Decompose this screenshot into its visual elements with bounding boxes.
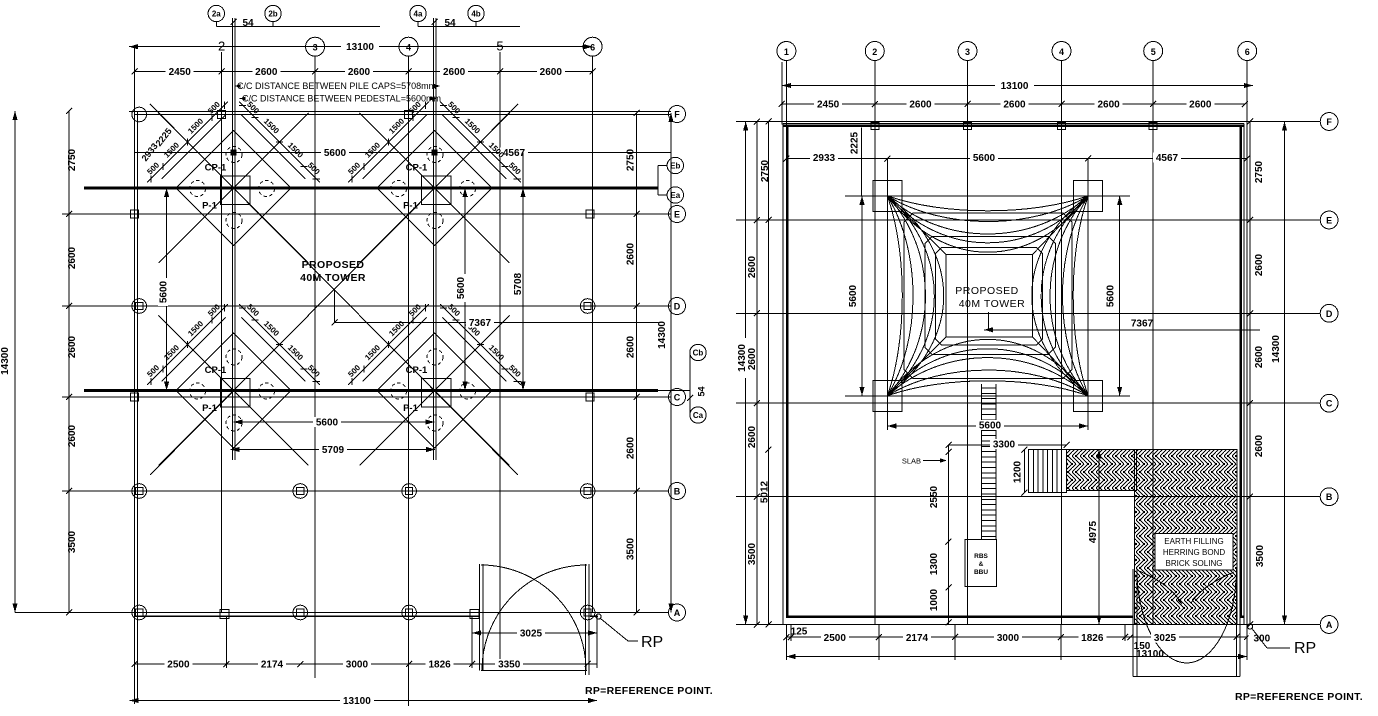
svg-text:4567: 4567 bbox=[1156, 153, 1179, 164]
svg-text:3000: 3000 bbox=[346, 660, 369, 671]
grid line 3 bbox=[314, 56, 316, 678]
overall dim 13100 bottom right drawing bbox=[786, 656, 1247, 658]
tower ring R2 bbox=[935, 248, 1042, 346]
grid line E bbox=[62, 213, 671, 215]
tower leg pad bbox=[1074, 380, 1103, 411]
svg-text:Eb: Eb bbox=[670, 162, 680, 171]
svg-text:2600: 2600 bbox=[540, 67, 563, 78]
dim chain 2550 1300 1000 bbox=[946, 449, 952, 455]
svg-text:2a: 2a bbox=[212, 10, 221, 19]
dim chain top right drawing bbox=[782, 103, 1245, 105]
small square marker bbox=[405, 111, 413, 119]
svg-text:D: D bbox=[1326, 309, 1333, 319]
tower axis 4b bbox=[435, 18, 437, 460]
svg-text:13100: 13100 bbox=[1136, 649, 1164, 660]
svg-text:3000: 3000 bbox=[997, 633, 1020, 644]
svg-text:2600: 2600 bbox=[67, 424, 78, 447]
door swing arc U right bbox=[1187, 569, 1237, 663]
svg-text:2600: 2600 bbox=[1254, 345, 1265, 368]
grid bubble D right bbox=[1320, 304, 1338, 322]
svg-text:2750: 2750 bbox=[760, 159, 771, 182]
column marker F left bbox=[132, 107, 147, 122]
dim 5600 vertical 1 bbox=[166, 188, 168, 391]
door swing arc 1 bbox=[481, 565, 586, 670]
door swing arc 2 bbox=[482, 565, 587, 670]
svg-text:14300: 14300 bbox=[0, 347, 11, 375]
svg-text:5600: 5600 bbox=[848, 284, 859, 307]
wall left outer bbox=[782, 123, 784, 624]
overall vertical dim 14300 far right bbox=[1284, 122, 1286, 625]
wall top thick bbox=[783, 125, 1244, 128]
cable ladder bbox=[981, 384, 983, 540]
svg-text:2450: 2450 bbox=[169, 67, 192, 78]
svg-text:1200: 1200 bbox=[1013, 460, 1024, 483]
small square marker bbox=[218, 111, 226, 119]
column marker B/409.1 bbox=[402, 484, 417, 499]
stairs bbox=[1029, 450, 1067, 493]
svg-text:5600: 5600 bbox=[316, 418, 339, 429]
svg-text:2600: 2600 bbox=[747, 347, 758, 370]
svg-text:E: E bbox=[674, 210, 680, 220]
svg-text:2b: 2b bbox=[268, 10, 277, 19]
svg-text:C: C bbox=[674, 393, 681, 403]
tower diagonal brace line 1 bbox=[150, 104, 518, 475]
svg-text:F: F bbox=[674, 110, 680, 120]
tower corner diagonal lines bbox=[887, 196, 946, 255]
svg-text:C: C bbox=[1326, 399, 1333, 409]
grid bubble 6 bbox=[583, 37, 602, 56]
svg-text:2600: 2600 bbox=[626, 242, 637, 265]
vertical dim chain left of right drawing bbox=[756, 122, 758, 625]
door jamb left bbox=[479, 564, 481, 670]
grid line B right bbox=[745, 496, 1321, 498]
dim 5600 vertical right of tower bbox=[1119, 196, 1121, 396]
grid bubble 6 right drawing bbox=[1238, 42, 1257, 61]
svg-text:3500: 3500 bbox=[1255, 544, 1266, 567]
svg-text:2933: 2933 bbox=[813, 153, 836, 164]
wall tick bbox=[1149, 123, 1157, 130]
grid bubble 4 bbox=[399, 37, 418, 56]
svg-text:3500: 3500 bbox=[67, 530, 78, 553]
dim 2225 rotated bbox=[861, 128, 863, 196]
door bottom line bbox=[1133, 676, 1240, 678]
pile cap CP-1 #1 bbox=[159, 113, 309, 263]
dim 7367 left drawing bbox=[334, 290, 336, 322]
svg-text:1300: 1300 bbox=[929, 552, 940, 575]
grid line 2 right bbox=[874, 125, 876, 625]
grid line F right bbox=[745, 121, 1320, 123]
dim 3300 bbox=[949, 444, 1067, 446]
svg-text:5: 5 bbox=[496, 39, 503, 54]
svg-text:2750: 2750 bbox=[67, 148, 78, 171]
svg-text:CP-1: CP-1 bbox=[205, 365, 227, 376]
wall right thick bbox=[1239, 126, 1241, 618]
svg-text:3300: 3300 bbox=[993, 440, 1016, 451]
grid bubble C right bbox=[1320, 394, 1338, 412]
svg-text:RP=REFERENCE POINT.: RP=REFERENCE POINT. bbox=[585, 685, 713, 697]
svg-text:3350: 3350 bbox=[498, 660, 521, 671]
svg-text:A: A bbox=[674, 608, 681, 618]
grid bubble A right bbox=[1320, 616, 1338, 634]
grid line A bbox=[15, 612, 669, 614]
svg-text:4: 4 bbox=[406, 42, 411, 52]
grid bubble E bbox=[669, 206, 686, 223]
svg-text:CP-1: CP-1 bbox=[406, 163, 428, 174]
tower ring R1 bbox=[925, 237, 1055, 355]
svg-text:2600: 2600 bbox=[443, 67, 466, 78]
svg-text:5600: 5600 bbox=[324, 148, 347, 159]
overall dim 13100 top right drawing bbox=[782, 85, 1253, 87]
svg-text:C/C DISTANCE BETWEEN PEDESTAL=: C/C DISTANCE BETWEEN PEDESTAL=5600mm bbox=[242, 94, 441, 104]
svg-text:54: 54 bbox=[444, 18, 456, 29]
svg-text:7367: 7367 bbox=[1131, 319, 1154, 330]
tower axis row Ca-Cb heavy line bbox=[84, 389, 658, 392]
svg-text:40M TOWER: 40M TOWER bbox=[300, 272, 366, 284]
wall right outer bbox=[1243, 123, 1245, 624]
grid bubble B right bbox=[1320, 488, 1338, 506]
pad axis vertical right bbox=[1087, 159, 1089, 431]
pad axis horizontal top bbox=[845, 195, 1130, 197]
tower axis 4a bbox=[432, 18, 434, 460]
grid bubble F bbox=[669, 106, 686, 123]
svg-text:BRICK SOLING: BRICK SOLING bbox=[1166, 559, 1223, 568]
svg-text:4975: 4975 bbox=[1088, 520, 1099, 543]
column marker A/409.1 bbox=[402, 605, 417, 620]
grid bubble B bbox=[669, 483, 686, 500]
vertical dim chain right side of right drawing bbox=[1249, 122, 1251, 625]
svg-text:HERRING BOND: HERRING BOND bbox=[1163, 548, 1225, 557]
svg-text:5: 5 bbox=[1151, 47, 1156, 57]
grid line F bbox=[129, 111, 671, 113]
reference point RP left bbox=[596, 614, 601, 619]
svg-text:Ea: Ea bbox=[670, 191, 680, 200]
svg-text:5600: 5600 bbox=[973, 153, 996, 164]
svg-text:E: E bbox=[1326, 216, 1332, 226]
svg-text:B: B bbox=[1326, 492, 1333, 502]
svg-text:CP-1: CP-1 bbox=[406, 365, 428, 376]
svg-text:CP-1: CP-1 bbox=[205, 163, 227, 174]
svg-text:54: 54 bbox=[697, 386, 707, 396]
grid line 4 bbox=[408, 56, 410, 706]
text box earth filling bbox=[1155, 534, 1233, 571]
column marker B/139.2 bbox=[132, 484, 147, 499]
grid bubble Ea bbox=[667, 187, 683, 203]
svg-text:2: 2 bbox=[218, 39, 225, 54]
svg-text:300: 300 bbox=[1253, 634, 1270, 645]
svg-text:B: B bbox=[674, 487, 681, 497]
tower leg pad bbox=[873, 180, 902, 211]
grid bubble 3 right drawing bbox=[958, 42, 977, 61]
svg-text:1: 1 bbox=[784, 47, 789, 57]
bracket to Cb Ca bubbles bbox=[658, 390, 690, 392]
svg-text:4: 4 bbox=[1059, 47, 1064, 57]
svg-text:2600: 2600 bbox=[1254, 434, 1265, 457]
small square marker bbox=[586, 393, 594, 401]
dim 5708 vertical bbox=[522, 153, 524, 391]
svg-text:1000: 1000 bbox=[929, 588, 940, 611]
grid bubble F right bbox=[1320, 113, 1338, 131]
svg-text:5600: 5600 bbox=[1106, 284, 1117, 307]
grid line 4 right bbox=[1061, 125, 1063, 625]
svg-text:2600: 2600 bbox=[67, 246, 78, 269]
overall vertical dim 14300 right drawing bbox=[745, 122, 747, 625]
svg-text:13100: 13100 bbox=[1001, 81, 1029, 92]
grid bubble 2 right drawing bbox=[865, 42, 884, 61]
pile cap CP-1 #4 bbox=[360, 316, 510, 466]
svg-text:2750: 2750 bbox=[1254, 160, 1265, 183]
svg-text:13100: 13100 bbox=[346, 42, 374, 53]
svg-text:2600: 2600 bbox=[255, 67, 278, 78]
svg-text:6: 6 bbox=[1245, 47, 1250, 57]
column marker D left bbox=[132, 299, 147, 314]
svg-text:RBS: RBS bbox=[974, 553, 988, 560]
tower leg pad bbox=[1074, 180, 1103, 211]
grid line C right bbox=[745, 402, 1321, 404]
svg-text:3: 3 bbox=[313, 42, 318, 52]
tower axis 2b bbox=[234, 18, 236, 460]
grid line 6 bbox=[592, 56, 594, 613]
left drawing: pile cap layout plan bbox=[0, 5, 713, 707]
svg-text:P-1: P-1 bbox=[403, 403, 419, 414]
column marker A/587.6 bbox=[580, 605, 595, 620]
wall top outer bbox=[783, 122, 1244, 124]
svg-text:2500: 2500 bbox=[167, 660, 190, 671]
small square marker bbox=[131, 393, 139, 401]
svg-text:2600: 2600 bbox=[626, 436, 637, 459]
grid line B bbox=[62, 490, 669, 492]
door swing arc U left bbox=[1137, 569, 1187, 663]
door jamb right right-drawing bbox=[1236, 569, 1238, 677]
grid bubble A bbox=[669, 604, 686, 621]
svg-text:2600: 2600 bbox=[747, 255, 758, 278]
grid bubble 2a bbox=[208, 5, 224, 21]
grid line 5 bbox=[499, 52, 501, 669]
grid bubble 4b bbox=[468, 5, 484, 21]
grid line 5 right bbox=[1152, 125, 1154, 625]
svg-text:5012: 5012 bbox=[760, 480, 771, 503]
dim 5600 between tower axes / 4567 bbox=[135, 152, 672, 154]
grid bubble Ca bbox=[690, 407, 706, 423]
dim 4975 bbox=[1098, 450, 1100, 625]
small square marker bbox=[586, 210, 594, 218]
svg-text:3025: 3025 bbox=[520, 629, 543, 640]
svg-text:SLAB: SLAB bbox=[902, 457, 921, 466]
svg-text:5600: 5600 bbox=[159, 280, 170, 303]
svg-text:Cb: Cb bbox=[693, 349, 704, 358]
svg-text:&: & bbox=[979, 561, 984, 568]
svg-text:P-1: P-1 bbox=[202, 403, 218, 414]
svg-text:Ca: Ca bbox=[693, 411, 704, 420]
hatch earth filling main bbox=[1135, 450, 1238, 625]
dim chain bottom left drawing bbox=[135, 663, 598, 665]
wall tick bbox=[871, 123, 879, 130]
small square marker bbox=[131, 210, 139, 218]
svg-text:3025: 3025 bbox=[1154, 633, 1177, 644]
tower concave face curves bbox=[887, 196, 1088, 211]
grid line E right bbox=[745, 219, 1321, 221]
column marker B/587.6 bbox=[580, 484, 595, 499]
pile cap CP-1 #3 bbox=[159, 316, 309, 466]
svg-text:54: 54 bbox=[242, 18, 254, 29]
tower ring R0 bbox=[904, 213, 1072, 379]
tower leg pad bbox=[873, 380, 902, 411]
svg-text:3500: 3500 bbox=[626, 537, 637, 560]
svg-text:2600: 2600 bbox=[1189, 100, 1212, 111]
boundary wall line left bbox=[134, 111, 136, 700]
svg-text:2: 2 bbox=[872, 47, 877, 57]
grid bubble 5 right drawing bbox=[1144, 42, 1163, 61]
wall left thick bbox=[786, 126, 788, 618]
grid line D right bbox=[745, 312, 1321, 314]
grid bubble 4a bbox=[410, 5, 426, 21]
svg-text:2174: 2174 bbox=[906, 633, 929, 644]
svg-text:5600: 5600 bbox=[979, 421, 1002, 432]
dim 1200 stairs bbox=[1024, 450, 1026, 493]
svg-text:6: 6 bbox=[590, 42, 595, 52]
svg-text:3: 3 bbox=[965, 47, 970, 57]
svg-text:14300: 14300 bbox=[1271, 335, 1282, 363]
svg-text:P-1: P-1 bbox=[403, 200, 419, 211]
dim 5600 pedestal c/c bottom bbox=[234, 421, 435, 423]
door jamb right bbox=[585, 564, 587, 675]
dim 3025 left drawing bbox=[472, 632, 597, 634]
svg-text:BBU: BBU bbox=[974, 569, 988, 576]
column marker A/300.3 bbox=[293, 605, 308, 620]
RBS BBU equipment box bbox=[965, 540, 997, 587]
svg-text:D: D bbox=[674, 302, 681, 312]
svg-text:2600: 2600 bbox=[1003, 100, 1026, 111]
bracket to Eb Ea bubbles bbox=[657, 166, 659, 189]
svg-text:2600: 2600 bbox=[909, 100, 932, 111]
svg-text:4567: 4567 bbox=[503, 148, 526, 159]
grid line D bbox=[62, 305, 671, 307]
post marker bbox=[220, 610, 229, 619]
svg-text:125: 125 bbox=[791, 627, 808, 638]
column marker B/300.3 bbox=[293, 484, 308, 499]
grid line 2 bbox=[221, 52, 223, 613]
svg-text:3500: 3500 bbox=[747, 542, 758, 565]
svg-text:C/C DISTANCE BETWEEN PILE CAPS: C/C DISTANCE BETWEEN PILE CAPS=5708mm bbox=[237, 81, 436, 91]
column marker A/139.2 bbox=[132, 605, 147, 620]
svg-text:2600: 2600 bbox=[1254, 253, 1265, 276]
dim 5600 vertical 3 bbox=[464, 188, 466, 391]
dim 5600 vertical left of tower bbox=[861, 196, 863, 396]
wall tick bbox=[964, 123, 972, 130]
svg-text:40M TOWER: 40M TOWER bbox=[959, 298, 1026, 310]
svg-text:2550: 2550 bbox=[929, 485, 940, 508]
svg-text:1826: 1826 bbox=[428, 660, 451, 671]
grid bubble 4 right drawing bbox=[1052, 42, 1071, 61]
svg-text:5709: 5709 bbox=[322, 445, 345, 456]
svg-text:P-1: P-1 bbox=[202, 200, 218, 211]
tower axis 2a bbox=[231, 18, 233, 460]
door bottom line bbox=[481, 669, 587, 671]
svg-text:2600: 2600 bbox=[67, 335, 78, 358]
door leader arcs bbox=[1139, 571, 1181, 603]
vertical dim chain left bbox=[68, 111, 70, 613]
svg-text:2600: 2600 bbox=[626, 335, 637, 358]
wall bottom thick bbox=[786, 615, 1134, 618]
door jamb left right-drawing bbox=[1132, 569, 1134, 677]
svg-text:2450: 2450 bbox=[817, 100, 840, 111]
svg-text:2600: 2600 bbox=[348, 67, 371, 78]
wall line at A bbox=[135, 615, 481, 617]
svg-text:5600: 5600 bbox=[456, 276, 467, 299]
svg-text:F: F bbox=[1326, 117, 1332, 127]
svg-text:2225: 2225 bbox=[850, 131, 861, 154]
svg-text:2174: 2174 bbox=[261, 660, 284, 671]
svg-text:2600: 2600 bbox=[747, 425, 758, 448]
svg-text:2500: 2500 bbox=[824, 633, 847, 644]
overall vertical dim 14300 right bbox=[670, 113, 672, 613]
overall dim 13100 top left drawing bbox=[129, 46, 584, 48]
grid bubble D bbox=[669, 298, 686, 315]
grid bubble C bbox=[669, 389, 686, 406]
svg-text:4a: 4a bbox=[414, 10, 423, 19]
column marker D right bbox=[580, 299, 595, 314]
tower inner square bbox=[946, 255, 1033, 338]
dim chain bottom right drawing bbox=[786, 636, 1247, 638]
hatch earth filling strip bbox=[1067, 450, 1137, 491]
grid bubble 1 right drawing bbox=[777, 42, 796, 61]
grid bubble Eb bbox=[667, 157, 683, 173]
right drawing: tower base plan bbox=[736, 42, 1363, 704]
overall dim 13100 bottom left drawing bbox=[130, 700, 597, 702]
pile cap CP-1 #2 bbox=[360, 113, 510, 263]
slab edge line bbox=[948, 445, 950, 625]
pad axis vertical left bbox=[886, 159, 888, 431]
svg-text:RP=REFERENCE POINT.: RP=REFERENCE POINT. bbox=[1235, 691, 1363, 703]
grid bubble 2b bbox=[265, 5, 281, 21]
grid bubble E right bbox=[1320, 211, 1338, 229]
svg-text:RP: RP bbox=[641, 634, 663, 651]
overall vertical dim 14300 left bbox=[14, 111, 16, 613]
dim 2933 5600 4567 bbox=[786, 158, 1247, 160]
dim 5012 / 2750 chain bbox=[768, 122, 770, 625]
vertical dim chain right of left drawing bbox=[636, 113, 638, 613]
svg-text:EARTH FILLING: EARTH FILLING bbox=[1164, 537, 1223, 546]
grid bubble 3 bbox=[306, 37, 325, 56]
svg-text:4b: 4b bbox=[471, 10, 480, 19]
grid line C bbox=[62, 396, 671, 398]
post marker bbox=[470, 610, 479, 619]
svg-text:7367: 7367 bbox=[469, 318, 492, 329]
grid line 6 right bbox=[1246, 61, 1248, 625]
grid bubble Cb bbox=[690, 344, 706, 360]
svg-text:RP: RP bbox=[1294, 640, 1316, 657]
svg-text:PROPOSED: PROPOSED bbox=[955, 285, 1019, 297]
grid line 3 right bbox=[967, 125, 969, 625]
svg-text:2600: 2600 bbox=[1097, 100, 1120, 111]
svg-text:PROPOSED: PROPOSED bbox=[302, 259, 365, 271]
reference point RP right bbox=[1247, 624, 1252, 629]
tower axis row Ea-Eb heavy line bbox=[84, 187, 658, 190]
svg-text:14300: 14300 bbox=[657, 321, 668, 349]
svg-text:13100: 13100 bbox=[343, 696, 371, 707]
pad axis horizontal bottom bbox=[845, 395, 1130, 397]
dim 5600 below tower bbox=[887, 425, 1088, 427]
svg-text:1826: 1826 bbox=[1081, 633, 1104, 644]
dim chain top of left drawing bbox=[135, 71, 593, 73]
svg-text:5708: 5708 bbox=[513, 272, 524, 295]
grid line A right bbox=[745, 624, 1321, 626]
svg-text:A: A bbox=[1326, 620, 1333, 630]
dim 5709 pile cap c/c bottom bbox=[231, 449, 436, 451]
tower diagonal brace line 2 bbox=[150, 104, 518, 475]
leader to tower centre / dim 7367 bbox=[988, 312, 990, 330]
wall tick bbox=[1058, 123, 1066, 130]
svg-text:2750: 2750 bbox=[626, 148, 637, 171]
